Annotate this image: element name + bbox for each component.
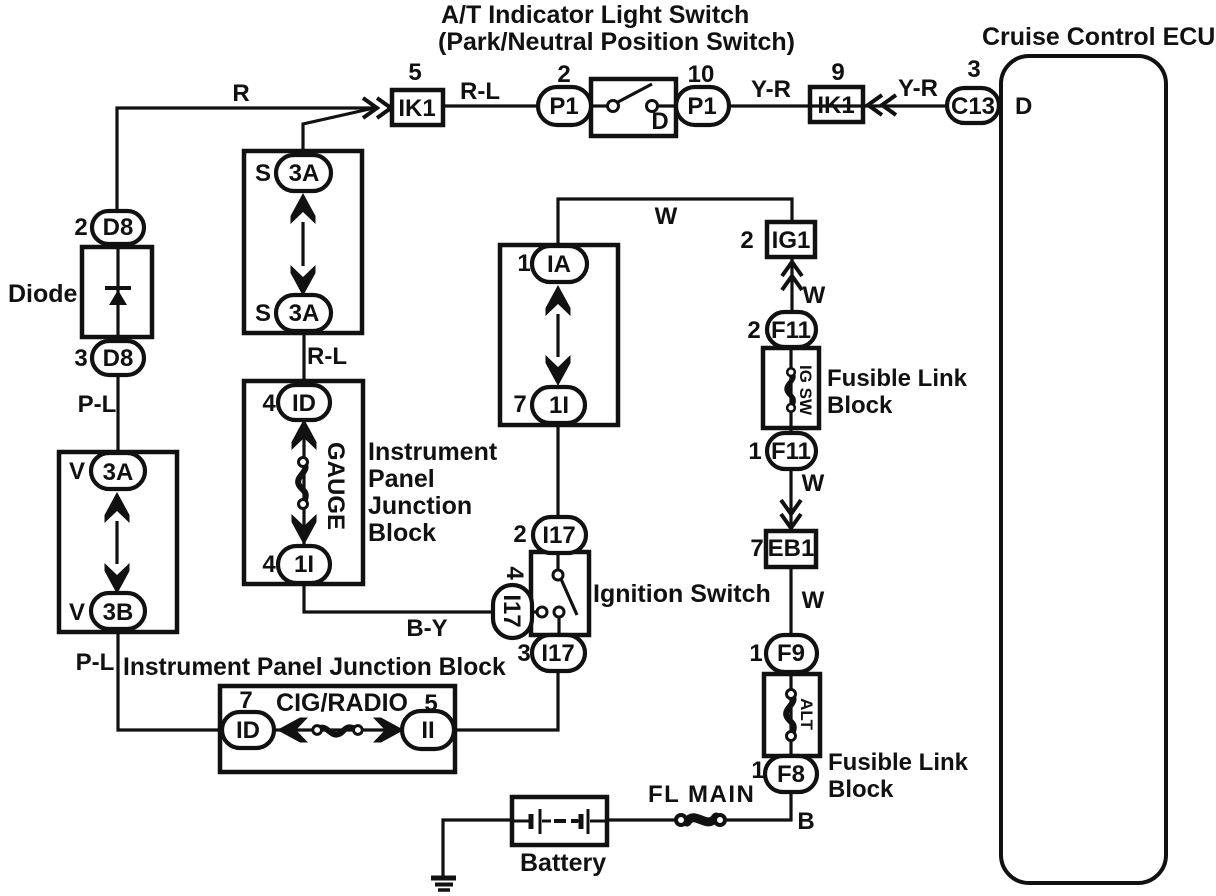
svg-text:3: 3 bbox=[967, 56, 980, 83]
svg-text:2: 2 bbox=[557, 61, 570, 88]
svg-text:3B: 3B bbox=[103, 599, 134, 626]
svg-text:I17: I17 bbox=[542, 522, 575, 549]
svg-text:F9: F9 bbox=[777, 640, 805, 667]
svg-text:R: R bbox=[232, 80, 249, 107]
svg-text:A/T Indicator Light Switch: A/T Indicator Light Switch bbox=[441, 1, 749, 29]
svg-text:Cruise Control ECU: Cruise Control ECU bbox=[982, 23, 1215, 51]
svg-text:3: 3 bbox=[74, 345, 87, 372]
svg-text:Fusible Link: Fusible Link bbox=[827, 365, 968, 392]
svg-text:IK1: IK1 bbox=[398, 95, 435, 122]
svg-text:ALT: ALT bbox=[797, 698, 816, 730]
svg-text:Y-R: Y-R bbox=[898, 75, 938, 102]
svg-text:F11: F11 bbox=[771, 317, 811, 344]
svg-text:EB1: EB1 bbox=[768, 535, 815, 562]
svg-text:2: 2 bbox=[74, 214, 87, 241]
svg-text:C13: C13 bbox=[951, 93, 995, 120]
svg-text:1: 1 bbox=[749, 640, 762, 667]
svg-text:3: 3 bbox=[517, 640, 530, 667]
svg-text:5: 5 bbox=[408, 59, 421, 86]
svg-text:V: V bbox=[69, 599, 85, 626]
svg-text:4: 4 bbox=[262, 390, 276, 417]
svg-text:Fusible Link: Fusible Link bbox=[828, 749, 969, 776]
svg-text:3A: 3A bbox=[103, 459, 134, 486]
svg-text:B: B bbox=[797, 808, 814, 835]
svg-text:B-Y: B-Y bbox=[406, 615, 447, 642]
svg-text:D: D bbox=[1015, 93, 1032, 120]
svg-text:1: 1 bbox=[748, 438, 761, 465]
svg-text:3A: 3A bbox=[289, 300, 320, 327]
svg-text:R-L: R-L bbox=[307, 343, 347, 370]
svg-text:W: W bbox=[802, 470, 825, 497]
svg-text:S: S bbox=[255, 160, 271, 187]
svg-text:Block: Block bbox=[368, 519, 436, 547]
svg-text:Block: Block bbox=[827, 392, 893, 419]
svg-text:P-L: P-L bbox=[78, 391, 117, 418]
svg-text:2: 2 bbox=[740, 227, 753, 254]
svg-text:D8: D8 bbox=[103, 214, 134, 241]
svg-text:W: W bbox=[655, 203, 678, 230]
svg-text:Ignition Switch: Ignition Switch bbox=[593, 580, 771, 608]
svg-text:7: 7 bbox=[239, 687, 252, 714]
svg-text:4: 4 bbox=[262, 551, 276, 578]
svg-text:4: 4 bbox=[501, 566, 528, 580]
svg-text:7: 7 bbox=[750, 535, 763, 562]
svg-text:Instrument Panel Junction Bloc: Instrument Panel Junction Block bbox=[123, 654, 506, 681]
svg-text:1: 1 bbox=[517, 250, 530, 277]
svg-text:10: 10 bbox=[688, 61, 715, 88]
svg-text:IG SW: IG SW bbox=[796, 365, 815, 416]
svg-text:CIG/RADIO: CIG/RADIO bbox=[276, 689, 408, 717]
svg-text:1: 1 bbox=[751, 757, 764, 784]
svg-text:IA: IA bbox=[547, 251, 571, 278]
svg-text:V: V bbox=[69, 458, 85, 485]
svg-text:Battery: Battery bbox=[520, 849, 606, 877]
svg-text:D: D bbox=[651, 108, 668, 135]
svg-text:Block: Block bbox=[828, 776, 894, 803]
svg-text:I17: I17 bbox=[541, 640, 574, 667]
svg-text:R-L: R-L bbox=[460, 78, 500, 105]
svg-text:1I: 1I bbox=[549, 392, 569, 419]
svg-text:ID: ID bbox=[236, 717, 260, 744]
svg-text:W: W bbox=[802, 587, 825, 614]
svg-text:(Park/Neutral Position Switch): (Park/Neutral Position Switch) bbox=[438, 28, 795, 56]
svg-text:2: 2 bbox=[747, 317, 760, 344]
svg-text:FL MAIN: FL MAIN bbox=[648, 781, 755, 808]
svg-text:Junction: Junction bbox=[368, 492, 472, 520]
svg-text:D8: D8 bbox=[103, 345, 134, 372]
svg-text:Panel: Panel bbox=[368, 465, 435, 493]
svg-text:IK1: IK1 bbox=[817, 92, 854, 119]
svg-text:5: 5 bbox=[424, 690, 437, 717]
svg-text:II: II bbox=[421, 717, 434, 744]
svg-text:2: 2 bbox=[513, 521, 526, 548]
svg-text:GAUGE: GAUGE bbox=[322, 442, 349, 530]
svg-text:F11: F11 bbox=[771, 438, 811, 465]
svg-text:Y-R: Y-R bbox=[751, 76, 791, 103]
svg-text:IG1: IG1 bbox=[772, 227, 811, 254]
svg-text:9: 9 bbox=[831, 59, 844, 86]
svg-text:F8: F8 bbox=[777, 761, 805, 788]
svg-text:W: W bbox=[803, 282, 826, 309]
svg-text:P1: P1 bbox=[549, 93, 578, 120]
svg-text:P-L: P-L bbox=[76, 649, 115, 676]
svg-text:1I: 1I bbox=[294, 551, 314, 578]
svg-text:I17: I17 bbox=[498, 594, 525, 627]
svg-text:ID: ID bbox=[292, 390, 316, 417]
svg-text:P1: P1 bbox=[687, 93, 716, 120]
svg-text:7: 7 bbox=[513, 391, 526, 418]
svg-text:3A: 3A bbox=[289, 160, 320, 187]
svg-text:S: S bbox=[255, 300, 271, 327]
svg-text:Diode: Diode bbox=[8, 280, 78, 308]
svg-text:Instrument: Instrument bbox=[368, 438, 498, 466]
